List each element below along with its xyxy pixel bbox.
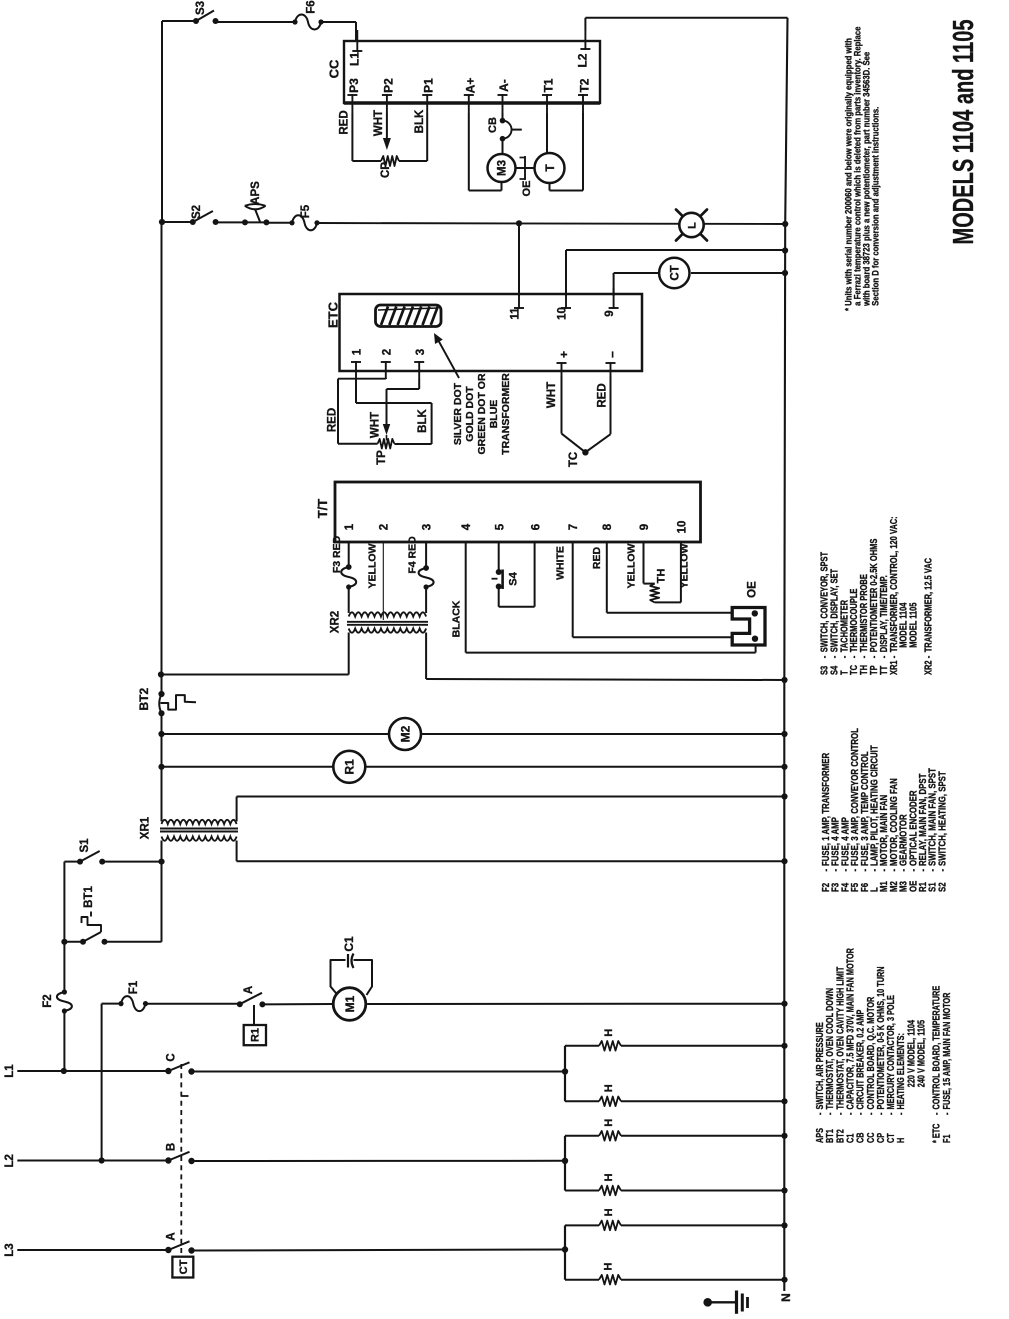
svg-text:2: 2 — [381, 349, 393, 355]
svg-text:P3: P3 — [347, 78, 361, 93]
svg-text:F1: F1 — [128, 980, 140, 994]
svg-text:8: 8 — [602, 523, 614, 530]
svg-text:OE: OE — [747, 581, 759, 598]
svg-text:MODELS 1104 and 1105: MODELS 1104 and 1105 — [948, 20, 980, 245]
svg-text:R1: R1 — [249, 1028, 261, 1042]
svg-text:CP: CP — [380, 162, 392, 178]
svg-text:BLUE: BLUE — [488, 400, 500, 429]
svg-text:L: L — [686, 222, 698, 229]
svg-text:M1: M1 — [343, 995, 357, 1012]
svg-text:T: T — [543, 164, 557, 172]
svg-text:FUSE, 15 AMP, MAIN FAN MOTOR: FUSE, 15 AMP, MAIN FAN MOTOR — [941, 992, 952, 1109]
svg-text:9: 9 — [604, 310, 616, 316]
svg-text:XR1: XR1 — [140, 816, 152, 839]
svg-text:SILVER DOT: SILVER DOT — [452, 382, 464, 445]
svg-text:F5: F5 — [300, 204, 312, 218]
svg-text:C1: C1 — [342, 936, 356, 952]
svg-text:M2: M2 — [398, 725, 412, 742]
svg-text:F2: F2 — [42, 994, 54, 1007]
svg-text:F1: F1 — [941, 1134, 952, 1143]
svg-text:MODEL 1105: MODEL 1105 — [908, 602, 919, 647]
svg-text:WHT: WHT — [370, 412, 382, 438]
svg-text:CT: CT — [178, 1259, 190, 1274]
svg-text:TH: TH — [655, 569, 667, 584]
svg-text:1: 1 — [352, 348, 364, 355]
svg-text:10: 10 — [676, 521, 688, 534]
svg-text:H: H — [603, 1029, 615, 1037]
svg-text:GREEN DOT OR: GREEN DOT OR — [476, 373, 488, 455]
svg-text:WHT: WHT — [546, 382, 558, 408]
svg-text:11: 11 — [510, 307, 522, 320]
svg-text:A-: A- — [497, 79, 511, 92]
svg-text:5: 5 — [494, 523, 506, 530]
svg-text:TRANSFORMER, 12.5 VAC: TRANSFORMER, 12.5 VAC — [922, 557, 933, 652]
svg-text:S4: S4 — [507, 571, 519, 585]
svg-text:YELLOW: YELLOW — [625, 543, 637, 588]
svg-text:S2: S2 — [191, 205, 203, 219]
svg-text:-: - — [888, 656, 899, 659]
svg-text:TP: TP — [376, 450, 388, 465]
svg-text:4: 4 — [461, 523, 473, 530]
svg-text:L2: L2 — [4, 1154, 16, 1167]
svg-text:RED: RED — [327, 408, 339, 432]
svg-text:CC: CC — [327, 59, 342, 78]
svg-text:H: H — [895, 1138, 906, 1143]
svg-text:P2: P2 — [381, 78, 395, 93]
svg-text:−: − — [605, 351, 619, 358]
svg-text:L3: L3 — [4, 1243, 16, 1256]
svg-text:XR2: XR2 — [922, 660, 933, 675]
svg-text:BLK: BLK — [417, 408, 429, 432]
svg-text:1: 1 — [344, 523, 356, 530]
svg-text:3: 3 — [415, 349, 427, 355]
svg-text:H: H — [603, 1119, 615, 1127]
svg-text:T2: T2 — [578, 78, 592, 92]
svg-text:9: 9 — [639, 524, 651, 530]
svg-text:7: 7 — [568, 524, 580, 530]
svg-text:10: 10 — [557, 307, 569, 320]
svg-text:A+: A+ — [463, 78, 477, 94]
svg-text:-: - — [937, 869, 948, 872]
svg-text:A: A — [166, 1232, 178, 1240]
svg-text:M3: M3 — [497, 160, 509, 176]
svg-text:WHITE: WHITE — [554, 546, 566, 580]
svg-text:F6: F6 — [306, 0, 318, 13]
svg-text:XR2: XR2 — [330, 611, 342, 633]
svg-text:Section D for conversion and a: Section D for conversion and adjustment … — [870, 107, 881, 306]
svg-text:BLACK: BLACK — [450, 600, 462, 637]
svg-text:TRANSFORMER: TRANSFORMER — [500, 373, 512, 455]
svg-text:WHT: WHT — [373, 110, 385, 136]
svg-text:BT1: BT1 — [83, 886, 95, 908]
svg-text:BLK: BLK — [414, 109, 426, 133]
svg-text:F3 RED: F3 RED — [331, 535, 343, 573]
svg-text:6: 6 — [531, 524, 543, 530]
svg-text:2: 2 — [379, 524, 391, 530]
svg-text:T/T: T/T — [315, 499, 330, 519]
svg-text:CT: CT — [669, 265, 681, 280]
svg-text:H: H — [603, 1084, 615, 1092]
svg-text:OE: OE — [521, 181, 533, 197]
svg-text:+: + — [557, 351, 571, 358]
svg-text:GOLD DOT: GOLD DOT — [464, 386, 476, 442]
svg-text:RED: RED — [339, 110, 351, 134]
svg-text:BT2: BT2 — [137, 688, 151, 711]
svg-text:R1: R1 — [343, 759, 357, 775]
svg-text:CB: CB — [487, 117, 499, 133]
svg-text:T1: T1 — [542, 78, 556, 92]
svg-text:RED: RED — [591, 546, 603, 569]
svg-text:L1: L1 — [4, 1064, 16, 1078]
svg-text:F4 RED: F4 RED — [406, 536, 418, 574]
svg-text:SWITCH, HEATING, SPST: SWITCH, HEATING, SPST — [937, 771, 948, 866]
svg-text:H: H — [603, 1208, 615, 1216]
svg-text:-: - — [895, 1113, 906, 1115]
svg-text:-: - — [922, 656, 933, 659]
svg-text:XR1: XR1 — [888, 660, 899, 675]
svg-text:B: B — [166, 1143, 178, 1151]
svg-text:RED: RED — [597, 383, 609, 407]
svg-text:L2: L2 — [575, 53, 589, 67]
svg-text:ETC: ETC — [326, 301, 341, 328]
svg-text:YELLOW: YELLOW — [366, 543, 378, 588]
svg-text:S1: S1 — [79, 838, 91, 853]
svg-text:APS: APS — [250, 181, 262, 205]
svg-text:H: H — [603, 1263, 615, 1271]
svg-text:A: A — [243, 986, 255, 994]
svg-text:C: C — [166, 1053, 178, 1061]
svg-text:L1: L1 — [347, 52, 361, 66]
svg-text:YELLOW: YELLOW — [678, 543, 690, 588]
svg-text:H: H — [603, 1173, 615, 1181]
svg-text:3: 3 — [422, 524, 434, 530]
svg-text:S3: S3 — [195, 1, 207, 15]
svg-text:S2: S2 — [937, 882, 948, 892]
svg-text:240 V MODEL, 1105: 240 V MODEL, 1105 — [915, 1020, 926, 1087]
svg-text:TC: TC — [568, 452, 580, 467]
svg-text:-: - — [941, 1113, 952, 1115]
svg-text:P1: P1 — [422, 78, 436, 93]
svg-text:N: N — [779, 1293, 793, 1302]
